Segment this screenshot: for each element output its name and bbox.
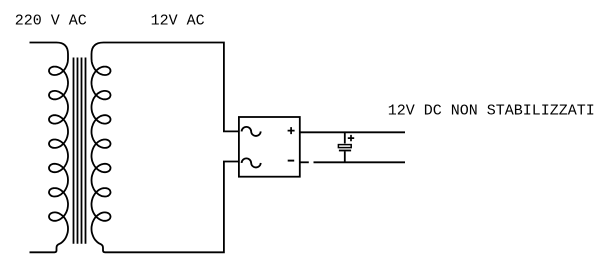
svg-text:12V DC NON STABILIZZATI: 12V DC NON STABILIZZATI xyxy=(388,103,595,120)
capacitor C1 negative plate xyxy=(339,150,351,152)
bridge rectifier U1 body xyxy=(239,117,300,177)
bridge rectifier AC input symbol bottom xyxy=(242,158,261,167)
transformer T1 core xyxy=(74,58,86,244)
wire positive output xyxy=(300,131,405,133)
bridge rectifier minus output label xyxy=(288,160,295,162)
transformer T1 primary winding with leads xyxy=(30,43,69,253)
wire negative output segment a xyxy=(300,161,309,163)
capacitor C1 positive lead xyxy=(344,132,346,143)
svg-text:12V AC: 12V AC xyxy=(151,13,205,30)
transformer T1 secondary winding with wires to rectifier xyxy=(92,43,239,253)
capacitor C1 negative lead xyxy=(344,151,346,162)
svg-text:220 V AC: 220 V AC xyxy=(15,13,87,30)
capacitor C1 positive plate xyxy=(338,145,351,148)
capacitor C1 polarity plus xyxy=(348,135,354,141)
bridge rectifier AC input symbol top xyxy=(242,127,261,136)
bridge rectifier plus output label xyxy=(288,127,295,134)
wire negative output segment b xyxy=(314,161,406,163)
